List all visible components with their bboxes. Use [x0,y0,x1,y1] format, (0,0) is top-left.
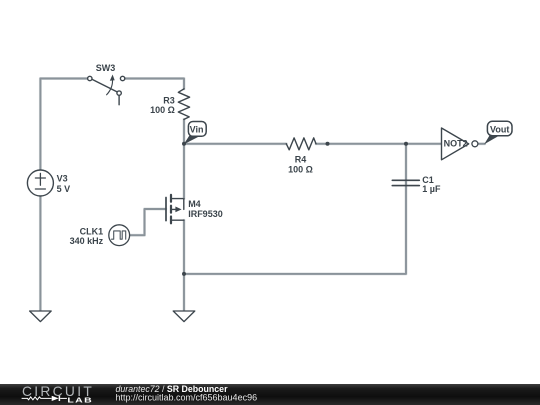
wire NOT2 output stub [478,143,485,145]
svg-text:V3: V3 [57,174,68,184]
junction node at bottom rail [182,272,186,276]
svg-text:100 Ω: 100 Ω [288,164,313,174]
svg-text:SW3: SW3 [96,63,116,73]
wire CLK1 output to M4 gate [130,209,166,235]
wire top rail right segment to R3 corner [125,79,184,89]
svg-text:340 kHz: 340 kHz [70,236,104,246]
wire M4 drain to bottom rail junction [183,220,185,274]
svg-text:M4: M4 [188,199,201,209]
svg-text:NOT2: NOT2 [444,139,468,149]
wire bottom junction to ground [183,274,185,311]
wire R4 right to NOT2 input [316,143,442,145]
svg-text:R3: R3 [163,96,175,106]
resistor R4 [286,138,316,150]
svg-text:IRF9530: IRF9530 [188,209,223,219]
voltage source V3 [27,170,53,196]
junction node after R4 [326,142,330,146]
junction node at Vin [182,142,186,146]
clock source CLK1 [109,225,130,246]
svg-text:CLK1: CLK1 [80,227,104,237]
svg-text:http://circuitlab.com/cf656bau: http://circuitlab.com/cf656bau4ec96 [116,393,258,403]
mosfet M4 [166,144,184,224]
ground left [30,311,52,322]
svg-text:Vout: Vout [490,125,509,135]
resistor R3 [178,89,189,120]
wire C1 bottom to bottom rail [184,183,406,274]
svg-text:1 µF: 1 µF [422,184,441,194]
node Vout flag [484,121,512,144]
footer bar [0,384,540,405]
wire soft underlay (all nets) [40,79,484,311]
svg-text:100 Ω: 100 Ω [150,105,175,115]
ground right [173,311,195,322]
capacitor C1 [392,180,419,185]
logo schematic squiggle [22,396,67,401]
node Vin flag [184,122,207,145]
wire R3 bottom to Vin junction [183,119,185,143]
inverter NOT2 [442,128,478,160]
svg-text:R4: R4 [295,154,307,164]
switch SW3 [88,75,125,105]
wire Vin junction to R4 left [184,143,286,145]
junction node at C1 top [404,142,408,146]
wire top rail left segment [40,78,87,80]
wire left branch vertical to V3 top [39,79,41,171]
wire C1 top branch [405,144,407,184]
svg-text:Vin: Vin [190,124,204,134]
svg-text:LAB: LAB [67,396,93,404]
wire V3 bottom to ground [39,196,41,311]
svg-text:5 V: 5 V [57,184,71,194]
